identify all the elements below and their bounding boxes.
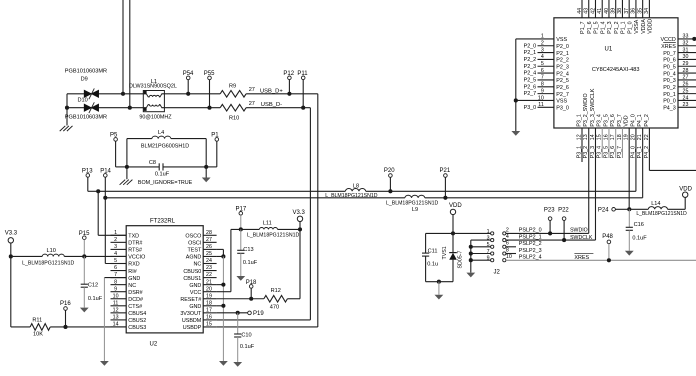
svg-text:P2_3: P2_3: [556, 64, 569, 70]
ground arrow under L4 right: [205, 167, 207, 178]
svg-text:L_BLM18PG121SN1D: L_BLM18PG121SN1D: [636, 211, 687, 217]
U1 pin 35 VDDA top stub: [642, 0, 644, 18]
wire GND pin21 to bus: [217, 284, 224, 286]
capacitor C13 0.1uF: [240, 229, 242, 250]
svg-text:43: 43: [584, 8, 590, 14]
svg-text:25: 25: [683, 88, 689, 94]
svg-text:6: 6: [541, 68, 544, 74]
wire J2 ground bus: [471, 239, 491, 241]
U2 pin 23 CBUS0 stub: [203, 270, 216, 272]
svg-text:USBDP: USBDP: [183, 325, 202, 331]
svg-text:VDD: VDD: [679, 186, 692, 192]
svg-text:42: 42: [590, 8, 596, 14]
transistor TVS1 SD05-7 diode: [452, 233, 454, 252]
svg-text:D9: D9: [81, 77, 88, 83]
svg-text:0.1uF: 0.1uF: [243, 260, 258, 266]
svg-text:DLW31SN900SQ2L: DLW31SN900SQ2L: [129, 84, 177, 90]
svg-text:P0_4: P0_4: [663, 71, 676, 77]
wire J2 pin1 to VDD rail: [453, 232, 491, 234]
svg-text:16: 16: [206, 315, 212, 321]
node VSS pin10: [514, 98, 518, 102]
svg-text:U2: U2: [150, 341, 158, 347]
svg-text:P24: P24: [598, 208, 609, 214]
U1 pin 27 P0_3 wire to edge: [678, 79, 696, 81]
svg-text:20: 20: [206, 286, 212, 292]
svg-text:CBUS2: CBUS2: [128, 318, 146, 324]
U2 pin 8 NC stub: [111, 284, 127, 286]
ground arrow under C12: [80, 308, 89, 313]
U2 pin 7 GND stub: [111, 277, 127, 279]
wire VDD rail to C11: [426, 232, 453, 234]
svg-text:8: 8: [506, 247, 509, 253]
svg-text:18: 18: [206, 300, 212, 306]
svg-text:USB_D+: USB_D+: [260, 89, 283, 95]
wire U1 pin21 P4_1 down to RXD line: [642, 128, 644, 198]
svg-text:P16: P16: [60, 301, 71, 307]
U1 pin 5 P2_3 stub: [538, 65, 554, 67]
svg-text:CY8C4245AXI-483: CY8C4245AXI-483: [592, 67, 640, 73]
svg-text:4: 4: [506, 234, 509, 240]
svg-text:P23: P23: [544, 208, 555, 214]
svg-text:29: 29: [683, 61, 689, 67]
wire U1 pin17 stub: [615, 128, 617, 158]
svg-text:TEST: TEST: [188, 248, 202, 254]
svg-text:31: 31: [683, 47, 689, 53]
node L4 left: [125, 165, 129, 169]
svg-text:23: 23: [683, 102, 689, 108]
svg-text:8: 8: [114, 279, 117, 285]
svg-text:11: 11: [538, 102, 544, 108]
U1 pin 8 P2_6 stub: [538, 86, 554, 88]
svg-text:OSCO: OSCO: [185, 234, 201, 240]
svg-text:13: 13: [113, 315, 119, 321]
node L11 left / C13: [239, 227, 243, 231]
svg-text:P1_4: P1_4: [600, 21, 606, 33]
wire SWDIO row J2 pin2 to U1 pin13: [506, 232, 582, 234]
U1 pin 1 VSS stub: [516, 38, 554, 40]
svg-text:V3.3: V3.3: [5, 231, 18, 237]
svg-text:17: 17: [206, 307, 212, 313]
svg-text:PSLP2_3: PSLP2_3: [519, 248, 542, 254]
svg-text:P3_6: P3_6: [610, 114, 616, 126]
inductor L11 L_BLM18PG121SN1D: [259, 228, 277, 230]
node L11 right / R12: [298, 227, 302, 231]
svg-text:P3_1: P3_1: [576, 114, 582, 126]
svg-text:GND: GND: [128, 276, 140, 282]
svg-text:P48: P48: [602, 234, 613, 240]
resistor R11 10K: [30, 324, 50, 331]
svg-text:36: 36: [631, 8, 637, 14]
svg-text:14: 14: [113, 322, 119, 328]
svg-text:470: 470: [270, 304, 279, 310]
svg-text:P0_3: P0_3: [663, 78, 676, 84]
J2 pin 8: [503, 252, 506, 255]
wire R11 to U2 pin14 CBUS3: [50, 326, 126, 328]
svg-text:RESET#: RESET#: [180, 297, 201, 303]
svg-text:CBUS4: CBUS4: [128, 311, 146, 317]
svg-text:19: 19: [206, 293, 212, 299]
svg-text:25: 25: [206, 251, 212, 257]
svg-text:P3_5: P3_5: [603, 146, 609, 158]
svg-text:10: 10: [506, 254, 512, 260]
inductor L10 L_BLM18PG121SN1D: [11, 255, 42, 257]
svg-text:26: 26: [206, 244, 212, 250]
U1 pin 32 XRES wire to edge: [678, 45, 696, 47]
svg-text:L8: L8: [353, 184, 359, 190]
node V3.3 rail: [9, 254, 13, 258]
svg-text:VDD: VDD: [449, 203, 462, 209]
svg-text:9: 9: [114, 286, 117, 292]
U2 pin 28 OSCO stub: [203, 234, 216, 236]
svg-text:2: 2: [541, 41, 544, 47]
svg-text:17: 17: [610, 134, 616, 140]
ground arrow U2 GND bus: [219, 361, 228, 366]
wire J2 pin8 stub: [506, 253, 516, 255]
wire USB_D+ vertical down to U2 USBDP: [317, 94, 319, 327]
svg-text:4: 4: [114, 251, 117, 257]
svg-text:L11: L11: [263, 221, 272, 227]
U1 pin 37 P1_0 top stub: [628, 0, 630, 18]
U2 pin 10 DCD# stub: [111, 298, 127, 300]
svg-text:D10: D10: [78, 98, 88, 104]
svg-text:22: 22: [206, 272, 212, 278]
svg-text:SWDCLK: SWDCLK: [570, 235, 593, 241]
wire U1 pin22 P4_2 to right edge: [648, 128, 650, 170]
U2 pin 16 USBDM stub: [203, 319, 216, 321]
wire RXD drop to U2 pin5: [104, 198, 106, 264]
svg-text:TXD: TXD: [128, 234, 139, 240]
U1 pin 39 P1_2 top stub: [615, 0, 617, 18]
U2 pin 9 DSR# stub: [111, 291, 127, 293]
svg-text:P2_2: P2_2: [556, 58, 569, 64]
node junction on USB_D+ line: [121, 92, 125, 96]
wire RESET# pin19 row: [217, 298, 264, 300]
svg-text:8: 8: [541, 82, 544, 88]
svg-text:C11: C11: [428, 249, 438, 255]
capacitor C10 0.1uF: [237, 313, 239, 334]
svg-text:GND: GND: [189, 304, 201, 310]
svg-text:90@100MHZ: 90@100MHZ: [139, 115, 172, 121]
wire TEST pin26 to AGND bus: [217, 248, 224, 250]
U1 pin 25 P0_1 wire to edge: [678, 93, 696, 95]
svg-text:BLM21PG600SH1D: BLM21PG600SH1D: [141, 144, 189, 150]
microcontroller U1 body: [554, 18, 678, 128]
svg-text:C10: C10: [241, 332, 251, 338]
wire U1 pin20 P4_0 down to TXD line: [635, 128, 637, 191]
svg-text:P19: P19: [253, 311, 264, 317]
svg-text:12: 12: [113, 307, 119, 313]
svg-text:38: 38: [617, 8, 623, 14]
diode D10 ESD suppressor PGB1010603MR: [84, 104, 91, 111]
svg-text:P4_0: P4_0: [630, 114, 636, 126]
svg-text:P0_1: P0_1: [663, 92, 676, 98]
U1 pin 42 P1_5 top stub: [594, 0, 596, 18]
ground chassis symbol top-left: [60, 126, 73, 131]
svg-text:0.1uF: 0.1uF: [240, 344, 255, 350]
J2 pin 3: [491, 239, 494, 242]
svg-text:SD05-7: SD05-7: [458, 250, 464, 268]
J2 pin 9: [491, 259, 494, 262]
svg-text:P3_2_SWDIO: P3_2_SWDIO: [583, 93, 589, 126]
svg-text:1: 1: [541, 34, 544, 40]
wire R12 riser: [299, 229, 301, 298]
node VDD rail: [451, 231, 455, 235]
wire vertical from top edge to USB_D+ line: [122, 0, 124, 94]
svg-text:11: 11: [113, 300, 119, 306]
svg-text:P1_7: P1_7: [580, 21, 586, 33]
U1 pin 44 P1_7 top stub: [581, 0, 583, 18]
svg-text:CTS#: CTS#: [128, 304, 142, 310]
svg-text:P3_0: P3_0: [524, 105, 537, 111]
svg-text:L10: L10: [47, 248, 56, 254]
svg-text:16: 16: [603, 134, 609, 140]
capacitor C11 0.1u: [422, 252, 429, 254]
svg-text:40: 40: [604, 8, 610, 14]
svg-text:P3_3_SWDCLK: P3_3_SWDCLK: [590, 88, 596, 126]
svg-text:C12: C12: [88, 282, 98, 288]
svg-text:41: 41: [597, 8, 603, 14]
svg-text:39: 39: [611, 8, 617, 14]
svg-text:RI#: RI#: [128, 269, 136, 275]
node P24/C16/L14: [627, 207, 631, 211]
svg-text:VDDA: VDDA: [641, 19, 647, 34]
wire U1 pin12 P3_1 stub: [581, 128, 583, 162]
svg-text:CBUS0: CBUS0: [183, 269, 201, 275]
svg-text:R11: R11: [32, 318, 42, 324]
U1 pin 7 P2_5 stub: [538, 79, 554, 81]
U1 pin 41 P1_4 top stub: [601, 0, 603, 18]
wire USB_D+ upper line left part: [67, 93, 146, 95]
svg-text:NC: NC: [194, 262, 202, 268]
wire U1 pin18 stub: [621, 128, 623, 158]
J2 pin 4: [503, 239, 506, 242]
svg-text:P2_6: P2_6: [524, 84, 537, 90]
U1 pin 6 P2_4 stub: [538, 72, 554, 74]
svg-text:PGB1010603MR: PGB1010603MR: [65, 115, 107, 121]
svg-text:27: 27: [249, 101, 255, 107]
svg-text:P22: P22: [558, 208, 569, 214]
svg-text:P4_2: P4_2: [644, 114, 650, 126]
svg-text:P1_2: P1_2: [614, 21, 620, 33]
wire RXD long line lower y198: [105, 197, 405, 199]
svg-text:PSLP2_1: PSLP2_1: [519, 234, 542, 240]
svg-text:10: 10: [113, 293, 119, 299]
svg-text:0.1uF: 0.1uF: [88, 296, 103, 302]
svg-text:P2_1: P2_1: [556, 51, 569, 57]
svg-text:27: 27: [683, 75, 689, 81]
U1 pin 4 P2_2 stub: [538, 58, 554, 60]
svg-text:L9: L9: [412, 207, 418, 213]
U1 pin 34 VDDD top stub: [648, 0, 650, 18]
U2 pin 27 OSCI stub: [203, 241, 216, 243]
U2 pin 14 CBUS3 stub: [111, 326, 127, 328]
svg-text:CBUS1: CBUS1: [183, 276, 201, 282]
svg-text:P2_4: P2_4: [524, 71, 537, 77]
svg-text:9: 9: [541, 88, 544, 94]
ground arrow U2 GND pin7: [100, 361, 109, 366]
wire vertical from top edge to USB_D- line: [129, 0, 131, 108]
node L4 right: [204, 165, 208, 169]
svg-text:XRES: XRES: [661, 44, 676, 50]
wire 3V3OUT pin17 to P19: [217, 312, 248, 314]
svg-text:P0_0: P0_0: [663, 99, 676, 105]
wire TXD long line upper y191: [98, 190, 345, 192]
svg-text:VSS: VSS: [556, 99, 567, 105]
svg-text:RXD: RXD: [128, 262, 139, 268]
wire TXD drop to U2 pin1: [97, 191, 99, 235]
ground chassis under C8 left: [126, 167, 128, 179]
svg-text:PSLP2_4: PSLP2_4: [519, 255, 542, 261]
svg-text:P1_1: P1_1: [621, 21, 627, 33]
svg-text:P3_7: P3_7: [617, 114, 623, 126]
svg-text:15: 15: [206, 322, 212, 328]
U1 pin 9 P2_7 stub: [538, 93, 554, 95]
inductor L9 L_BLM18PG121SN1D: [405, 195, 425, 198]
inductor L14 L_BLM18PG121SN1D: [629, 208, 648, 210]
svg-text:7: 7: [541, 75, 544, 81]
resistor R12 470: [264, 295, 288, 302]
wire U1 pin16 stub: [608, 128, 610, 158]
wire USB_D+ after R9 to corner: [246, 93, 318, 95]
J2 pin 7: [491, 252, 494, 255]
U1 pin 28 P0_4 wire to edge: [678, 72, 696, 74]
diode D9 ESD suppressor PGB1010603MR: [84, 90, 91, 97]
capacitor C16 0.1uF: [628, 209, 630, 227]
svg-text:DSR#: DSR#: [128, 290, 142, 296]
svg-text:24: 24: [206, 258, 212, 264]
U1 pin 30 P0_6 wire to edge: [678, 58, 696, 60]
U2 pin 13 CBUS2 stub: [111, 319, 127, 321]
U2 pin 4 VCCIO stub: [111, 255, 127, 257]
svg-text:L_BLM18PG121SN1D: L_BLM18PG121SN1D: [325, 193, 377, 199]
node on VCCD pin33 wire: [692, 37, 696, 41]
node VCCIO: [82, 254, 86, 258]
svg-text:U1: U1: [605, 47, 613, 53]
svg-text:L_BLM18PG121SN1D: L_BLM18PG121SN1D: [386, 201, 438, 207]
wire VCC pin20 riser to L11: [217, 291, 231, 293]
U1 pin 38 P1_1 top stub: [621, 0, 623, 18]
svg-text:7: 7: [114, 272, 117, 278]
svg-text:5: 5: [114, 258, 117, 264]
common-mode choke L1 DLW31SN900SQ2L: [143, 91, 164, 112]
wire U1 pin13 SWDIO down: [588, 128, 590, 233]
U2 pin 12 CBUS4 stub: [111, 312, 127, 314]
svg-text:P2_4: P2_4: [556, 71, 569, 77]
svg-text:37: 37: [624, 8, 630, 14]
wire SWDCLK row J2 pin4 to U1 pin14: [506, 239, 596, 241]
svg-text:SWDIO: SWDIO: [570, 228, 588, 234]
svg-text:P1_3: P1_3: [607, 21, 613, 33]
svg-text:VDD: VDD: [624, 115, 630, 126]
svg-text:30: 30: [683, 54, 689, 60]
svg-text:P3_0: P3_0: [556, 106, 569, 112]
U1 pin 40 P1_3 top stub: [608, 0, 610, 18]
svg-text:USB_D-: USB_D-: [261, 102, 282, 108]
U2 pin 3 RTS# stub: [111, 248, 127, 250]
svg-text:PSLP2_2: PSLP2_2: [519, 241, 542, 247]
U2 pin 19 RESET# stub: [203, 298, 216, 300]
svg-text:2: 2: [506, 227, 509, 233]
pin P19: [248, 311, 252, 315]
svg-text:P2_3: P2_3: [524, 64, 537, 70]
U2 pin 17 3V3OUT stub: [203, 312, 216, 314]
svg-text:CBUS3: CBUS3: [128, 325, 146, 331]
svg-text:PSLP2_0: PSLP2_0: [519, 228, 542, 234]
svg-text:P2_7: P2_7: [524, 91, 537, 97]
svg-text:VSSA: VSSA: [634, 19, 640, 34]
U2 pin 20 VCC stub: [203, 291, 216, 293]
svg-text:27: 27: [249, 87, 255, 93]
svg-text:0.1uF: 0.1uF: [155, 172, 170, 178]
svg-text:USBDM: USBDM: [182, 318, 202, 324]
svg-text:R12: R12: [271, 288, 281, 294]
svg-text:32: 32: [683, 41, 689, 47]
svg-text:P0_7: P0_7: [663, 51, 676, 57]
svg-text:P4_1: P4_1: [637, 114, 643, 126]
svg-text:P0_6: P0_6: [663, 58, 676, 64]
svg-text:C16: C16: [634, 222, 644, 228]
U2 pin 1 TXD stub: [111, 234, 127, 236]
svg-text:10: 10: [538, 95, 544, 101]
wire XRES long line: [506, 259, 696, 261]
svg-text:27: 27: [206, 237, 212, 243]
U2 pin 26 TEST stub: [203, 248, 216, 250]
svg-text:PGB1010603MR: PGB1010603MR: [65, 69, 107, 75]
ground arrow under C10: [233, 362, 242, 367]
svg-text:P2_2: P2_2: [524, 57, 537, 63]
svg-text:P1_5: P1_5: [594, 21, 600, 33]
svg-text:DCD#: DCD#: [128, 297, 143, 303]
U1 pin 10 VSS stub: [516, 99, 554, 101]
svg-text:28: 28: [206, 230, 212, 236]
U1 pin 23 P4_3 wire to edge: [678, 106, 696, 108]
svg-text:P1_6: P1_6: [587, 21, 593, 33]
svg-text:0.1uF: 0.1uF: [632, 236, 647, 242]
wire VSS bus vertical: [515, 39, 517, 131]
svg-text:P2_0: P2_0: [524, 43, 537, 49]
svg-text:33: 33: [683, 34, 689, 40]
svg-text:34: 34: [644, 8, 650, 14]
svg-text:P2_5: P2_5: [556, 78, 569, 84]
svg-text:R9: R9: [229, 83, 236, 89]
svg-text:10K: 10K: [33, 331, 43, 337]
ground arrow under TVS rail: [435, 295, 444, 300]
wire GND pin18 to bus: [217, 305, 224, 307]
U1 pin 26 P0_2 wire to edge: [678, 86, 696, 88]
J2 pin 5: [491, 245, 494, 248]
U1 pin 31 P0_7 wire to edge: [678, 52, 696, 54]
svg-text:VDDD: VDDD: [648, 19, 654, 34]
U2 pin 24 NC stub: [203, 263, 216, 265]
svg-text:24: 24: [683, 95, 689, 101]
U1 pin 36 VSSA top stub: [635, 0, 637, 18]
wire left vertical to ground: [66, 94, 68, 126]
capacitor C8 0.1uF: [127, 166, 159, 168]
svg-text:P4_3: P4_3: [663, 106, 676, 112]
svg-text:OSCI: OSCI: [188, 241, 201, 247]
svg-text:P1_0: P1_0: [627, 21, 633, 33]
svg-text:L14: L14: [651, 201, 660, 207]
svg-text:P2_7: P2_7: [556, 92, 569, 98]
svg-text:6: 6: [506, 241, 509, 247]
svg-text:GND: GND: [189, 283, 201, 289]
wire J2 pin6 stub: [506, 246, 516, 248]
ground arrow under C13: [236, 276, 245, 281]
svg-text:L_BLM18PG121SN1D: L_BLM18PG121SN1D: [22, 261, 74, 267]
svg-text:P3_6: P3_6: [610, 146, 616, 158]
svg-text:L4: L4: [158, 130, 164, 136]
svg-text:P2_0: P2_0: [556, 44, 569, 50]
